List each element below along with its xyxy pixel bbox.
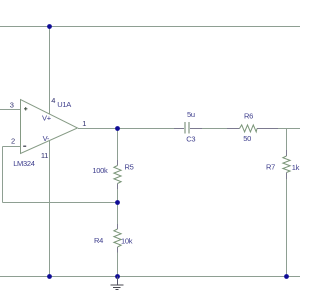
svg-text:R7: R7 bbox=[266, 162, 275, 171]
svg-text:V-: V- bbox=[43, 134, 50, 143]
svg-text:R6: R6 bbox=[244, 112, 253, 121]
svg-text:10k: 10k bbox=[121, 236, 133, 245]
svg-text:R4: R4 bbox=[94, 236, 103, 245]
svg-text:11: 11 bbox=[41, 151, 48, 160]
svg-text:LM324: LM324 bbox=[13, 159, 35, 168]
svg-text:U1A: U1A bbox=[57, 100, 71, 109]
svg-text:3: 3 bbox=[10, 100, 14, 109]
svg-text:100k: 100k bbox=[92, 166, 108, 175]
svg-text:2: 2 bbox=[11, 137, 15, 146]
svg-text:V+: V+ bbox=[42, 114, 52, 123]
svg-text:4: 4 bbox=[51, 96, 55, 105]
svg-text:5u: 5u bbox=[187, 110, 195, 119]
svg-text:R5: R5 bbox=[125, 162, 134, 171]
svg-text:C3: C3 bbox=[186, 134, 195, 143]
svg-text:50: 50 bbox=[243, 134, 251, 143]
svg-text:1: 1 bbox=[82, 119, 86, 128]
svg-text:1k: 1k bbox=[292, 163, 300, 172]
